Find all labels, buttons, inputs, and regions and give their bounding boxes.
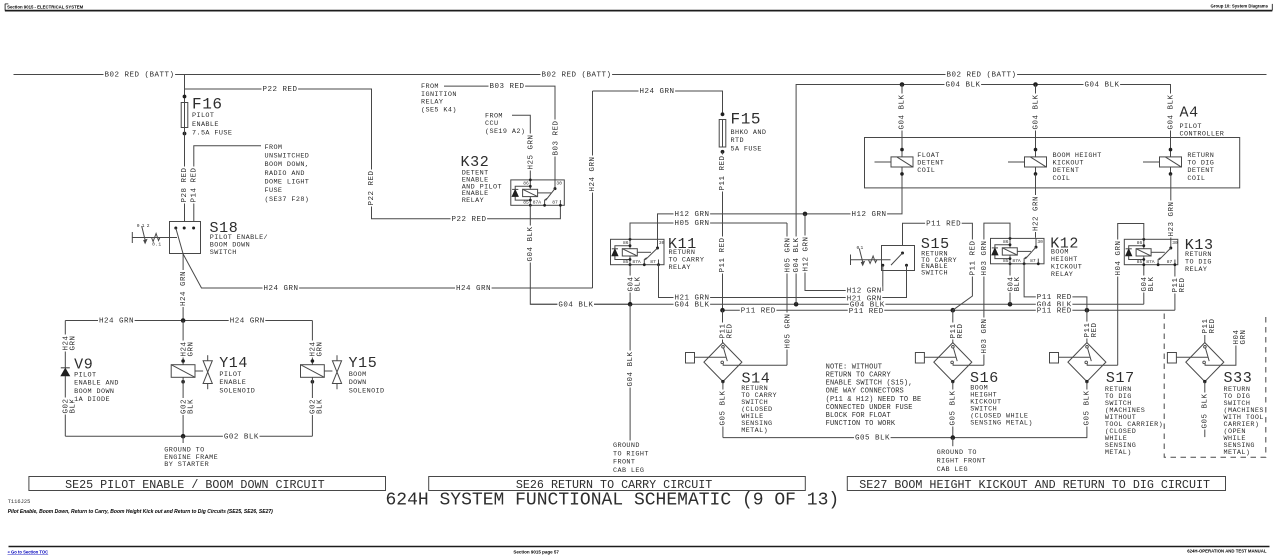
node P11 rail x S17 drop [1085, 308, 1090, 313]
wire G04 BLK from K12 pin 85 to rail [1009, 263, 1011, 304]
dashed option box around S33 [1164, 314, 1266, 458]
relay coil branch [1009, 238, 1011, 263]
detent coil feed from upper rail [1170, 85, 1172, 157]
svg-text:B03 RED: B03 RED [552, 120, 560, 155]
svg-text:624H SYSTEM FUNCTIONAL SCHEMAT: 624H SYSTEM FUNCTIONAL SCHEMATIC (9 OF 1… [386, 491, 840, 511]
node H12 junction to S15 drop [803, 212, 808, 217]
wire S16 bottom to G05 rail [952, 382, 954, 438]
svg-text:G05 BLK: G05 BLK [949, 390, 957, 425]
wire P11 RED from F15 down to P11 rail [722, 152, 724, 310]
svg-text:H25 GRN: H25 GRN [528, 134, 536, 169]
svg-text:H03 GRN: H03 GRN [981, 318, 989, 353]
relay contact common pin 30 [1170, 239, 1172, 248]
relay 87A tick [1024, 257, 1026, 264]
svg-text:« Go to Section TOC: « Go to Section TOC [8, 549, 49, 554]
label S17 description [1104, 385, 1133, 392]
node G02 rail junction [181, 434, 186, 439]
wire G05 BLK ground rail [723, 437, 1087, 439]
svg-text:COIL: COIL [1187, 175, 1205, 183]
svg-text:RELAY: RELAY [1185, 266, 1207, 274]
wire H24 branch into solenoid Y14 [182, 321, 184, 365]
label G02 BLK at V9 [62, 398, 69, 415]
label P11 RED above S17 [1084, 322, 1091, 339]
relay 87A tick [545, 198, 547, 205]
detent coil feed from upper rail [901, 85, 903, 157]
wire Y14 to G02 rail [182, 377, 184, 436]
label K32 description [461, 169, 490, 176]
relay coil to contact link [538, 192, 552, 194]
svg-text:86: 86 [1137, 240, 1143, 246]
circuit box SE27 [847, 477, 1225, 491]
svg-text:85: 85 [523, 200, 529, 206]
node G04 rail x G04 riser [794, 302, 799, 307]
svg-text:G05 BLK: G05 BLK [1083, 390, 1091, 425]
svg-text:ENABLE: ENABLE [192, 121, 219, 129]
svg-text:G04 BLK: G04 BLK [527, 226, 535, 261]
relay coil [1136, 249, 1151, 256]
relay 87 tick [658, 260, 660, 265]
svg-text:H23 GRN: H23 GRN [1168, 201, 1176, 236]
svg-text:B02 RED (BATT): B02 RED (BATT) [105, 72, 175, 80]
detent coil body [1160, 157, 1182, 167]
svg-text:RED: RED [1209, 318, 1217, 333]
wire S16 top riser from P11 rail [952, 310, 954, 342]
controller A4 box [865, 138, 1240, 188]
note: FROM CCU (SE19 A2) [484, 112, 504, 119]
label P11 RED at K13 [1172, 277, 1179, 294]
svg-text:BOOM: BOOM [349, 371, 367, 379]
label H24 GRN top [639, 87, 676, 95]
relay box [611, 239, 665, 264]
wire F16 to S18 (P28 RED) [184, 128, 186, 222]
header right bracket [1271, 4, 1273, 11]
label B03 RED vertical [552, 120, 559, 157]
wire G04 BLK rail to K13 pin 85 [1143, 264, 1145, 304]
svg-text:RELAY: RELAY [669, 264, 691, 272]
detent coil left stub [1008, 161, 1025, 163]
relay contact blade [546, 189, 555, 201]
svg-text:P11 RED: P11 RED [849, 308, 884, 316]
label Y14 description [218, 370, 242, 377]
wire G04 BLK ground rail [530, 303, 1144, 305]
node F16 top terminal [183, 95, 187, 99]
wire through coil [901, 167, 903, 174]
label P11 RED above S14 [719, 323, 726, 340]
svg-text:GROUND: GROUND [613, 442, 640, 450]
label H05 GRN [674, 219, 711, 227]
note about return to carry enable switch [825, 362, 883, 369]
wire P11 RED from S15 top to rail [903, 223, 973, 310]
node Y14 coil bottom [181, 380, 185, 384]
label H24 GRN rail right [229, 316, 266, 324]
svg-text:30: 30 [659, 240, 665, 246]
svg-text:SENSING METAL): SENSING METAL) [970, 419, 1033, 427]
svg-text:(SE37 F28): (SE37 F28) [265, 196, 310, 204]
svg-text:CONNECTED UNDER FUSE: CONNECTED UNDER FUSE [826, 404, 913, 412]
wire P14 RED from unswitched fuse to S18 [194, 146, 261, 222]
relay box [511, 180, 565, 205]
wire P11 RED rail [723, 309, 1175, 311]
svg-text:H24 GRN: H24 GRN [99, 318, 134, 326]
label S15 description [920, 250, 949, 257]
label H23 GRN [1167, 201, 1174, 238]
svg-text:(P11 & H12) NEED TO BE: (P11 & H12) NEED TO BE [826, 396, 922, 404]
relay coil [523, 189, 538, 196]
node F15 top terminal [721, 112, 725, 116]
label H24 GRN mid-left [263, 284, 300, 292]
svg-text:87A: 87A [1012, 258, 1021, 264]
svg-text:GROUND TO: GROUND TO [937, 449, 977, 457]
svg-text:P22 RED: P22 RED [263, 86, 298, 94]
label H21 GRN right [846, 294, 883, 302]
detent coil description [1052, 151, 1103, 158]
switch S18 box [170, 222, 201, 254]
label G04 BLK below K32 [526, 226, 533, 263]
svg-text:ENABLE: ENABLE [219, 379, 246, 387]
label H24 GRN at V9 [62, 335, 69, 352]
wire S14 top riser from P11 rail [722, 310, 724, 342]
label H25 GRN [527, 134, 534, 171]
svg-text:H12 GRN: H12 GRN [847, 288, 882, 296]
relay contact common pin 30 [1035, 238, 1037, 247]
connector to switch wire [924, 356, 955, 358]
fuse F16 body [181, 103, 188, 128]
svg-text:TO RIGHT: TO RIGHT [613, 450, 649, 458]
proximity switch diamond [934, 343, 972, 382]
label G05 BLK rail [854, 433, 891, 441]
svg-text:H05 GRN: H05 GRN [784, 237, 792, 272]
circuit box SE26 [429, 477, 806, 491]
label P14 RED [190, 167, 197, 204]
connector to switch wire [695, 356, 726, 358]
wire G02 BLK ground rail [65, 435, 312, 437]
node coil bottom terminal [900, 172, 904, 176]
svg-text:T116J25: T116J25 [8, 499, 31, 505]
svg-text:DOWN: DOWN [349, 379, 367, 387]
svg-text:A4: A4 [1180, 105, 1199, 122]
S18 blade [176, 228, 183, 254]
svg-text:COIL: COIL [917, 167, 935, 175]
svg-text:G04 BLK: G04 BLK [675, 301, 710, 309]
wire H25 GRN from CCU to K32 pin 86 [512, 115, 530, 180]
svg-text:UNSWITCHED: UNSWITCHED [265, 153, 310, 161]
label H03 GRN lower [981, 318, 988, 355]
svg-text:BLK: BLK [1014, 276, 1022, 291]
relay coil diode [992, 248, 998, 255]
svg-text:01: 01 [857, 245, 865, 251]
label H24 GRN rail left [98, 316, 135, 324]
svg-text:B02 RED (BATT): B02 RED (BATT) [947, 72, 1017, 80]
svg-text:30: 30 [1037, 239, 1043, 245]
diamond bottom node [951, 380, 954, 383]
relay coil branch [1143, 239, 1145, 264]
note: GROUND TO RIGHT FRONT CAB LEG (right) [936, 448, 978, 455]
node G04 rail x K11 [628, 302, 633, 307]
svg-text:H03 GRN: H03 GRN [981, 240, 989, 275]
svg-text:BLK: BLK [634, 276, 642, 291]
wire from B02 rail down to fuse F16 [184, 75, 186, 103]
valve symbol of Y14 [195, 370, 203, 372]
label P11 RED above S16 [949, 323, 956, 340]
svg-text:86: 86 [1003, 239, 1009, 245]
wire S33 output stub H04 GRN [1205, 346, 1236, 366]
S15 actuator T-bar [850, 255, 852, 266]
svg-text:G04 BLK: G04 BLK [1167, 94, 1175, 129]
label H05 GRN riser upper [784, 237, 791, 274]
label H04 GRN at S33 [1233, 329, 1240, 346]
relay 87 tick [1174, 260, 1176, 265]
proximity switch diamond [704, 343, 742, 382]
relay coil to contact link [1151, 251, 1165, 253]
label H24 GRN at Y14 [180, 341, 187, 358]
wire B02 RED (BATT) battery rail [14, 74, 1267, 76]
wire H24 branch into solenoid Y15 [311, 321, 313, 365]
svg-text:SOLENOID: SOLENOID [219, 388, 255, 396]
relay coil branch [529, 180, 531, 205]
label A4 description [1179, 122, 1203, 129]
svg-text:BY STARTER: BY STARTER [164, 461, 209, 469]
svg-text:BHKO AND: BHKO AND [731, 129, 767, 137]
svg-text:GRN: GRN [1240, 329, 1248, 344]
svg-text:H24 GRN: H24 GRN [456, 285, 491, 293]
svg-text:85: 85 [1003, 258, 1009, 264]
wire G04 BLK from rail down to cab leg ground [629, 304, 631, 440]
label Y15 description [348, 370, 368, 377]
svg-text:(SE5 K4): (SE5 K4) [421, 106, 457, 114]
wire H24 GRN riser to top [592, 91, 594, 288]
wire H12 GRN drop from junction to S15 [805, 214, 883, 291]
svg-text:FRONT: FRONT [613, 459, 635, 467]
solenoid coil Y15 [301, 365, 325, 378]
label K13 description [1184, 250, 1213, 257]
label G02 BLK at Y15 [309, 398, 316, 415]
svg-text:H22 GRN: H22 GRN [1033, 196, 1041, 231]
relay box [1124, 239, 1178, 264]
svg-text:PILOT: PILOT [74, 371, 96, 379]
svg-text:P28 RED: P28 RED [181, 167, 189, 202]
svg-text:H12 GRN: H12 GRN [802, 236, 810, 271]
S15 actuator entry wire [851, 259, 891, 261]
wire G04 BLK from K11 pin 85 down [629, 264, 631, 304]
label S14 description [740, 384, 769, 391]
svg-text:H04 GRN: H04 GRN [1115, 240, 1123, 275]
relay 87A tick [644, 258, 646, 265]
node G05 rail ground junction [951, 435, 956, 440]
circuit box SE25 [29, 477, 386, 491]
label H21 GRN left [674, 293, 711, 301]
ground stub to cab leg [952, 438, 954, 447]
wire Y15 to G02 rail [311, 377, 313, 436]
svg-text:G04 BLK: G04 BLK [627, 351, 635, 386]
connector to switch wire [1176, 356, 1207, 358]
note: FROM UNSWITCHED BOOM DOWN RADIO AND DOME LIGHT FUSE [264, 143, 284, 150]
svg-text:RED: RED [727, 323, 735, 338]
connector square [686, 353, 695, 364]
svg-text:F15: F15 [731, 110, 762, 128]
S18 pin node P28 [183, 227, 186, 230]
svg-text:G05 BLK: G05 BLK [1201, 393, 1209, 428]
svg-text:G04 BLK: G04 BLK [899, 94, 907, 129]
label H24 GRN below S18 [179, 270, 186, 307]
svg-text:7.5A FUSE: 7.5A FUSE [192, 130, 232, 138]
svg-text:P11 RED: P11 RED [926, 220, 961, 228]
label P11 RED below F15 [718, 155, 725, 192]
label G05 BLK below S16 [949, 390, 956, 427]
relay coil [622, 249, 637, 256]
label G04 BLK rail 2 [674, 300, 711, 308]
wire S14 output to H05 riser [723, 364, 787, 366]
label P11 RED rail 2 [848, 307, 885, 315]
S18 actuator position arrow [142, 226, 145, 240]
label G02 BLK at Y14 [180, 398, 187, 415]
svg-text:METAL): METAL) [741, 427, 768, 435]
detent coil body [1025, 157, 1047, 167]
label H12 GRN drop [802, 236, 809, 273]
label S33 description [1223, 385, 1252, 392]
footer rule [9, 546, 1270, 548]
svg-text:0.1: 0.1 [152, 242, 161, 248]
node Y15 coil top [311, 359, 315, 363]
svg-text:H05 GRN: H05 GRN [675, 220, 710, 228]
svg-text:H24 GRN: H24 GRN [640, 88, 675, 96]
svg-text:G04 BLK: G04 BLK [946, 82, 981, 90]
diamond inner contacts [953, 348, 957, 361]
svg-text:G04 BLK: G04 BLK [1085, 82, 1120, 90]
svg-text:G02 BLK: G02 BLK [224, 433, 259, 441]
svg-text:CAB LEG: CAB LEG [937, 466, 968, 474]
diode V9 [61, 367, 70, 369]
relay 87 tick [1037, 259, 1039, 264]
relay contact blade [1159, 248, 1171, 260]
diamond inner contacts [724, 348, 728, 361]
svg-text:FUSE: FUSE [265, 187, 283, 195]
label S18 description [209, 233, 269, 240]
diamond bottom node [721, 380, 724, 383]
svg-text:P11 RED: P11 RED [1037, 294, 1072, 302]
svg-text:RTD: RTD [731, 137, 744, 145]
diamond inner contacts [1088, 348, 1092, 361]
svg-text:ENABLE SWITCH (S15),: ENABLE SWITCH (S15), [826, 380, 913, 388]
relay 87A tick [1158, 258, 1160, 265]
svg-text:624H-OPERATION AND TEST MANUAL: 624H-OPERATION AND TEST MANUAL [1187, 549, 1267, 554]
svg-text:87: 87 [1167, 259, 1173, 265]
svg-text:RED: RED [957, 323, 965, 338]
svg-text:G04 BLK: G04 BLK [793, 237, 801, 272]
label P28 RED [180, 167, 187, 204]
svg-text:CAB LEG: CAB LEG [613, 467, 644, 475]
label S16 description [969, 384, 989, 391]
wire S33 top stub P11 RED [1204, 335, 1206, 343]
label G04 BLK below K12 [1007, 276, 1014, 293]
label B03 RED horizontal [489, 82, 526, 90]
node G04 rail x K12 [1008, 302, 1013, 307]
label H12 GRN into S15 [846, 286, 883, 294]
relay contact blade [1025, 247, 1036, 259]
wire P11 RED drop to S17 [1086, 310, 1088, 342]
svg-text:H12 GRN: H12 GRN [675, 211, 710, 219]
fuse F15 body [719, 120, 726, 148]
wire H04 GRN from K13 pin 86 to S17 riser [1118, 224, 1144, 366]
svg-text:G04 BLK: G04 BLK [1032, 94, 1040, 129]
svg-text:30: 30 [1172, 240, 1178, 246]
svg-text:G05 BLK: G05 BLK [855, 435, 890, 443]
svg-text:RELAY: RELAY [1051, 271, 1073, 279]
label P11 RED above rail [718, 237, 725, 274]
svg-text:H24 GRN: H24 GRN [230, 318, 265, 326]
relay coil branch [629, 239, 631, 264]
wire S14 bottom to G05 rail [722, 382, 724, 438]
wire B03 RED from ignition relay to K32 pin 30 [444, 86, 555, 180]
label P22 RED bottom [451, 215, 488, 223]
svg-text:GRN: GRN [187, 341, 195, 356]
svg-text:87A: 87A [1146, 259, 1155, 265]
S15 blade [891, 253, 903, 265]
node P11 rail x S16 drop [951, 308, 956, 313]
relay contact blade [645, 248, 657, 260]
relay box [991, 238, 1045, 263]
svg-text:SE27 BOOM HEIGHT KICKOUT AND R: SE27 BOOM HEIGHT KICKOUT AND RETURN TO D… [859, 478, 1210, 492]
node H24 rail junction at S18 branch [181, 318, 186, 323]
S18 actuator spring zigzag [152, 234, 160, 242]
label G04 BLK coil feed [1032, 94, 1039, 131]
svg-text:BLOCK FOR FLOAT: BLOCK FOR FLOAT [826, 412, 891, 420]
S18 pin node P14 [192, 227, 195, 230]
node coil top terminal [1169, 148, 1173, 152]
svg-text:RED: RED [1179, 277, 1187, 292]
header left bracket [5, 3, 8, 5]
svg-text:RELAY: RELAY [462, 197, 484, 205]
relay coil [1002, 248, 1017, 255]
svg-text:Group 10: System Diagrams: Group 10: System Diagrams [1210, 4, 1268, 9]
svg-text:CONTROLLER: CONTROLLER [1180, 131, 1225, 139]
svg-text:87A: 87A [533, 200, 542, 206]
svg-text:P22 RED: P22 RED [452, 216, 487, 224]
svg-text:FUNCTION TO WORK: FUNCTION TO WORK [826, 420, 896, 428]
label H05 GRN riser lower [784, 313, 791, 350]
detent coil body [891, 157, 913, 167]
label B02 RED (BATT) left [104, 70, 176, 78]
label H12 GRN right [851, 210, 888, 218]
label G05 BLK below S17 [1083, 390, 1090, 427]
note: GROUND TO RIGHT FRONT CAB LEG (left) [612, 441, 641, 448]
svg-text:PILOT: PILOT [219, 371, 241, 379]
wire H23 GRN from RTD coil to K13 pin 30 [1170, 174, 1172, 239]
relay pin nodes [629, 238, 632, 241]
diamond inner contacts [1205, 348, 1209, 361]
svg-text:BOOM DOWN: BOOM DOWN [74, 388, 114, 396]
relay coil diode [612, 249, 618, 256]
svg-text:SE25 PILOT ENABLE / BOOM DOWN: SE25 PILOT ENABLE / BOOM DOWN CIRCUIT [65, 478, 325, 492]
solenoid coil Y14 [171, 365, 195, 378]
label G04 BLK rail 3 [849, 300, 886, 308]
diamond bottom node [1085, 380, 1088, 383]
connector square [1050, 353, 1059, 364]
relay coil to contact link [1017, 250, 1031, 252]
svg-text:RIGHT FRONT: RIGHT FRONT [937, 458, 986, 466]
svg-text:012: 012 [137, 223, 152, 229]
wire S18 down to H24 rail [182, 254, 184, 321]
svg-text:H12 GRN: H12 GRN [852, 211, 887, 219]
svg-text:SOLENOID: SOLENOID [349, 388, 385, 396]
node G04 upper rail x coil2 [1033, 82, 1038, 87]
wire through coil [1035, 167, 1037, 174]
relay pin nodes [1009, 237, 1012, 240]
svg-text:86: 86 [523, 181, 529, 187]
label G04 BLK coil feed [1167, 94, 1174, 131]
node G04 upper rail x coil1 [900, 82, 905, 87]
connector square [1167, 353, 1176, 364]
label P22 RED top [262, 85, 299, 93]
